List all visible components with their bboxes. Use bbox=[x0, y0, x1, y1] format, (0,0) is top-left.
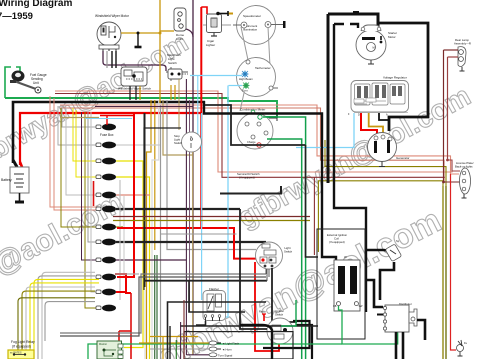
wire red ign stub bbox=[263, 314, 265, 321]
wire black ign feed bbox=[205, 105, 306, 145]
wire tan short bbox=[60, 117, 99, 119]
wire: green fuel sender loop bbox=[5, 67, 277, 117]
wire: battery black cable bbox=[13, 102, 205, 163]
wire gray bundle bottom bbox=[60, 274, 266, 333]
wire black starter loop inner bbox=[334, 24, 358, 28]
svg-text:D: D bbox=[358, 114, 360, 117]
junction black loop top bbox=[353, 11, 359, 15]
svg-text:Motor: Motor bbox=[388, 35, 396, 39]
wire black thick mid bbox=[144, 113, 146, 287]
wire yellow elbows bbox=[34, 279, 99, 359]
wire black mid horizontal bbox=[220, 186, 281, 194]
svg-text:Switch: Switch bbox=[174, 141, 183, 145]
svg-text:Switch: Switch bbox=[168, 61, 177, 65]
wire stubs under wiper switch bbox=[129, 86, 131, 100]
wire salmon bbox=[55, 94, 445, 178]
wire maroon bbox=[55, 91, 459, 172]
svg-text:Battery: Battery bbox=[1, 178, 12, 182]
wire black big elbow bottom bbox=[240, 325, 272, 359]
svg-text:Radio: Radio bbox=[259, 310, 266, 314]
wire gray wwm bbox=[106, 51, 108, 68]
wire purple extra bbox=[180, 322, 182, 359]
dome light bbox=[174, 8, 186, 41]
wire gray fuse bbox=[58, 106, 99, 145]
wire red VR-generator bbox=[361, 113, 377, 134]
connector row 12 bbox=[96, 305, 116, 312]
wire yellow fuse bbox=[73, 108, 99, 161]
wire tan bbox=[163, 100, 193, 155]
wire gray lightswitch drops bbox=[266, 269, 269, 281]
wire mustard wwm bbox=[121, 32, 160, 34]
turn indicator bbox=[242, 82, 250, 93]
wire red right column down bbox=[451, 174, 457, 350]
wire mustard down bbox=[147, 100, 152, 359]
battery bbox=[1, 167, 29, 193]
fuel pump bbox=[457, 340, 468, 356]
map/dash light switch bbox=[166, 53, 188, 81]
wire black distributor bottom pair bbox=[395, 332, 398, 359]
wire green verticals left of coil bbox=[281, 300, 296, 326]
wire black flasher left bbox=[196, 321, 206, 325]
wire maroon rear lamp bbox=[444, 49, 459, 51]
svg-text:Switch: Switch bbox=[275, 313, 284, 317]
connector row 10 bbox=[96, 274, 116, 281]
wire yellow mid bbox=[156, 255, 158, 359]
svg-text:Sp: Sp bbox=[396, 239, 400, 243]
wire gray fuse2 bbox=[91, 112, 99, 292]
wire purple horizontal bbox=[95, 106, 193, 108]
fuel gauge sending unit bbox=[10, 71, 41, 94]
wire green coil-distributor bbox=[339, 306, 398, 344]
wire olive elbows bbox=[22, 291, 95, 359]
connector row 6 bbox=[96, 206, 116, 213]
connector row 5 bbox=[96, 192, 116, 199]
wire gray elbow bbox=[26, 287, 95, 359]
wire purple wwm bbox=[103, 51, 166, 71]
wire lightblue turn bbox=[229, 85, 243, 87]
wire tan stoplight bbox=[192, 152, 194, 355]
ground battery bbox=[19, 193, 21, 202]
svg-text:Monitor: Monitor bbox=[99, 343, 107, 346]
wire red fuse link bbox=[93, 181, 95, 206]
svg-text:◄ Light Flash: ◄ Light Flash bbox=[222, 342, 240, 346]
wire gray tach-meter stub bbox=[240, 93, 244, 111]
tachometer bbox=[237, 58, 279, 97]
wire black distributor spark bbox=[366, 250, 391, 255]
wire lightblue short bbox=[85, 118, 132, 120]
wire salmon2 bbox=[60, 108, 461, 182]
wire gray ladder right of connectors bbox=[119, 180, 121, 300]
svg-text:Tachometer: Tachometer bbox=[255, 66, 271, 70]
wire olive row2 bbox=[318, 181, 443, 252]
wire gray elbows bbox=[42, 272, 95, 359]
wire lightblue flasher drop bbox=[225, 86, 228, 318]
svg-text:Light: Light bbox=[177, 37, 184, 41]
bottom-left elbow bundle turning down bbox=[18, 272, 99, 359]
fog light relay bbox=[8, 340, 35, 359]
connector row 7 bbox=[96, 224, 116, 231]
fuse box connector column bbox=[96, 124, 116, 312]
wire mustard VR-generator bbox=[369, 113, 383, 134]
svg-text:◄ Horn: ◄ Horn bbox=[222, 348, 232, 352]
wire salmon fuse bbox=[50, 96, 99, 207]
wire red R6 bbox=[255, 262, 279, 351]
generator bbox=[368, 133, 410, 167]
external coil bbox=[317, 229, 365, 339]
stop light switch bbox=[174, 132, 202, 152]
wire gray to fog relay bbox=[45, 302, 95, 341]
ground wiper bbox=[137, 33, 139, 47]
wire gray rows right bbox=[116, 144, 160, 146]
wire darkgreen monitor bbox=[162, 336, 164, 359]
wire gray speedo left bbox=[203, 24, 206, 26]
wire black lightswitch down bbox=[272, 268, 297, 322]
wire olive right column down bbox=[442, 186, 444, 359]
svg-text:(If equipped): (If equipped) bbox=[239, 176, 255, 180]
spark plug bbox=[385, 239, 402, 262]
wire black vertical x236 bbox=[240, 209, 267, 329]
high beam indicator bbox=[239, 71, 254, 82]
svg-text:Charge: Charge bbox=[247, 140, 256, 144]
wire purple fuse bbox=[82, 112, 100, 260]
wire red long vertical R2 bbox=[200, 7, 202, 228]
svg-text:CB: CB bbox=[333, 305, 337, 308]
label service oil switch bbox=[237, 172, 260, 180]
wire olive row bbox=[325, 140, 446, 186]
wire mustard dome bbox=[160, 30, 174, 32]
wire red fuse feed bbox=[115, 112, 258, 293]
connector row 4 bbox=[96, 174, 116, 181]
svg-text:Assembly—R: Assembly—R bbox=[454, 42, 471, 46]
wire red lower double bbox=[100, 115, 134, 117]
wire purple map long bbox=[185, 79, 187, 355]
wire black loop right bbox=[379, 23, 428, 131]
svg-text:Lighter: Lighter bbox=[206, 43, 215, 47]
svg-text:Speedometer: Speedometer bbox=[243, 14, 261, 18]
cigar lighter bbox=[201, 7, 233, 47]
svg-text:(If equipped): (If equipped) bbox=[12, 345, 31, 349]
connector row 8 bbox=[96, 239, 116, 246]
svg-text:Unit: Unit bbox=[33, 81, 39, 85]
svg-text:Fog Light Relay: Fog Light Relay bbox=[11, 340, 35, 344]
wire: battery red cable bbox=[20, 113, 201, 165]
right-side wires from connectors bbox=[60, 100, 266, 359]
svg-text:M: M bbox=[373, 46, 375, 50]
wire gray bbox=[60, 105, 459, 174]
distributor bbox=[383, 302, 417, 332]
wire olive fuse bbox=[61, 108, 99, 227]
wire lightblue highbeam bbox=[190, 75, 242, 77]
wire green meter right bbox=[263, 117, 306, 359]
wire yellow down bbox=[116, 161, 143, 348]
svg-text:Windshield Wiper Motor: Windshield Wiper Motor bbox=[95, 14, 130, 18]
wire black thin box bbox=[144, 128, 181, 290]
wire maroon license jog bbox=[448, 160, 461, 171]
ignition switch bbox=[267, 309, 293, 344]
wire black starter loop outer bbox=[328, 14, 378, 28]
connector row 11 bbox=[96, 289, 116, 296]
svg-text:Turn Signal: Turn Signal bbox=[218, 354, 233, 358]
svg-text:High Beam: High Beam bbox=[239, 77, 254, 81]
svg-text:Switch: Switch bbox=[284, 250, 293, 254]
wire black bottom horizontals bbox=[168, 302, 267, 359]
windshield wiper motor bbox=[95, 14, 130, 51]
flasher bbox=[203, 287, 226, 321]
wire maroon bottom bundle bbox=[113, 216, 310, 218]
wire maroon bottom vert bbox=[183, 300, 185, 359]
speedometer bbox=[233, 6, 286, 45]
starter motor bbox=[356, 25, 397, 64]
svg-text:Voltage Regulator: Voltage Regulator bbox=[383, 76, 407, 80]
wire black wwm bbox=[111, 51, 113, 68]
svg-text:ss BATES: ss BATES bbox=[10, 351, 22, 355]
left vertical bundle into fuse column bbox=[50, 96, 99, 308]
svg-text:(If equipped): (If equipped) bbox=[329, 240, 345, 244]
combination meter bbox=[237, 108, 277, 150]
wire maroon right column bbox=[443, 50, 445, 182]
wire black VR-generator bbox=[379, 113, 389, 120]
svg-text:7—1959: 7—1959 bbox=[0, 11, 33, 22]
wire black B1 step bbox=[204, 101, 336, 260]
connector row 2 bbox=[96, 142, 116, 149]
wire red bottom jog bbox=[119, 293, 131, 359]
wire black ign down bbox=[263, 321, 310, 348]
steering column box bbox=[139, 332, 293, 359]
svg-text:Fuse Box: Fuse Box bbox=[100, 133, 114, 137]
svg-text:Turn: Turn bbox=[242, 89, 248, 93]
connector row 1 bbox=[96, 124, 116, 131]
wire gray speedo-tach bbox=[241, 27, 248, 60]
connector row 3 bbox=[96, 158, 116, 165]
left-mid horizontal bundle wires bbox=[55, 91, 461, 255]
wire tan map switch bbox=[178, 79, 180, 130]
wire purple dome bbox=[186, 29, 193, 37]
rear lamp assembly R bbox=[454, 38, 471, 71]
license plate lights bbox=[455, 161, 474, 198]
wire purple long vertical bbox=[192, 0, 194, 355]
monitor green box bbox=[97, 341, 123, 359]
svg-text:Generator: Generator bbox=[396, 156, 410, 160]
svg-text:W: W bbox=[344, 255, 347, 259]
wire lightblue VR feed bbox=[296, 113, 354, 148]
voltage regulator bbox=[348, 76, 409, 117]
light switch bbox=[256, 242, 293, 269]
windshield wiper switch bbox=[118, 67, 151, 91]
connector row 9 bbox=[96, 257, 116, 264]
label fuel gauge sending unit bbox=[30, 73, 47, 85]
wire gray mid bbox=[167, 100, 256, 250]
wire mustard main vertical bbox=[159, 0, 161, 103]
svg-text:l Wiring Diagram: l Wiring Diagram bbox=[0, 0, 72, 9]
wire green bottom long bbox=[88, 344, 342, 359]
svg-text:Windshield Wiper Switch: Windshield Wiper Switch bbox=[118, 87, 151, 91]
